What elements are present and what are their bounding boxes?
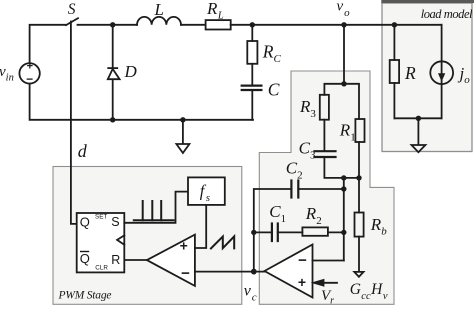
svg-text:+: + — [27, 61, 33, 73]
wire R1 bottom to node row — [358, 142, 360, 178]
inductor L — [137, 17, 181, 25]
capacitor C3 — [315, 150, 336, 152]
svg-text:−: − — [298, 252, 307, 269]
latch clock chevron mark — [117, 235, 124, 244]
svg-text:+: + — [298, 274, 306, 290]
junction: R1 bottom / Rb top node — [356, 175, 361, 180]
ground arrow below Rb — [354, 272, 363, 277]
ground symbol load model — [412, 145, 426, 152]
wire R2 to inverting node riser — [328, 231, 344, 233]
svg-text:R: R — [111, 253, 120, 267]
wire diode D anode down to return rail — [112, 79, 114, 120]
wire C2 to inverting node riser — [298, 188, 344, 190]
wire resistor R to load return — [393, 83, 395, 118]
junction: node vo sense tap — [341, 22, 346, 27]
wire C3 bottom to feedback node row — [324, 158, 359, 178]
wire node row down to resistor Rb — [358, 178, 360, 213]
svg-text:CLR: CLR — [95, 264, 108, 271]
svg-text:Q: Q — [80, 251, 90, 266]
junction: R3/R1 split node — [341, 81, 346, 86]
wire RL to node vo and into load model — [231, 24, 442, 26]
wire RC to capacitor C — [251, 64, 253, 85]
wire feedback riser to capacitor C1 — [254, 231, 272, 233]
svg-text:SET: SET — [95, 214, 107, 221]
svg-text:PWM Stage: PWM Stage — [58, 290, 112, 302]
svg-text:L: L — [154, 0, 164, 19]
junction: C2 at inverting riser — [341, 186, 346, 191]
jo arrow head — [438, 73, 445, 81]
compensator GccHv enclosure box — [259, 71, 394, 304]
wire from vin+ up and right to switch S left contact — [30, 25, 66, 63]
junction: ground tap on return rail — [180, 117, 185, 122]
wire fs down to comparator non-inverting input — [195, 205, 206, 248]
Vr reference arrow into op-amp non-inverting input — [322, 282, 337, 284]
clock pulse train symbol — [134, 201, 174, 220]
wire node vo down to R3/R1 split — [343, 25, 345, 84]
svg-text:D: D — [124, 62, 138, 81]
wire node vc: comparator inverting input to op-amp output — [195, 271, 265, 273]
wire d: switch control line down to latch Q output — [71, 22, 77, 224]
resistor R (load) — [390, 60, 399, 83]
capacitor C — [242, 84, 262, 86]
ground symbol on return rail — [182, 120, 184, 144]
wire load node down to resistor R — [393, 25, 395, 60]
clock generator fs box — [188, 177, 225, 205]
wire vin- down to bottom return rail — [30, 84, 253, 120]
capacitor C2 — [290, 181, 292, 198]
svg-text:+: + — [180, 238, 188, 254]
junction: R2 at inverting riser — [341, 230, 346, 235]
wire diode D cathode up to switch node — [112, 25, 114, 68]
wire op-amp inverting input to node riser — [313, 260, 344, 262]
dark top border of load model box — [381, 0, 474, 3]
sawtooth ramp symbol — [211, 236, 234, 248]
junction: diode anode at return rail — [110, 117, 115, 122]
wire C1 to resistor R2 — [278, 231, 303, 233]
capacitor C1 — [271, 224, 273, 242]
resistor R1 — [355, 119, 364, 142]
wire Rb down to reference arrow — [358, 237, 360, 272]
svg-text:−: − — [26, 72, 33, 86]
wire inductor L to resistor RL — [181, 24, 206, 26]
current source jo — [430, 61, 453, 84]
junction: switch node at diode cathode — [110, 22, 115, 27]
wire comparator output to latch R input — [124, 259, 147, 261]
svg-text:S: S — [68, 1, 76, 18]
wire load return to ground — [417, 118, 419, 145]
junction: node vc at feedback riser — [251, 269, 257, 275]
svg-text:C: C — [268, 80, 280, 100]
junction: vo rail at RC branch — [250, 22, 255, 27]
svg-text:−: − — [181, 265, 190, 282]
resistor R2 — [302, 227, 328, 235]
switch S lever — [66, 18, 78, 25]
junction: C3 bottom node at riser — [341, 175, 346, 180]
wire capacitor C to return rail — [251, 91, 253, 120]
svg-text:Q: Q — [80, 215, 90, 230]
comparator U2 PWM modulator — [147, 235, 195, 286]
svg-text:d: d — [78, 141, 88, 161]
wire inverting input node riser — [343, 178, 345, 261]
resistor R3 — [320, 95, 329, 120]
wire node vo down to resistor RC — [251, 25, 253, 41]
voltage source vin — [19, 63, 39, 83]
wire split node to R3 top and R1 top — [324, 84, 359, 119]
wire latch S input to clock fs — [124, 192, 188, 223]
junction: load return ground tap — [416, 116, 421, 121]
diode D — [108, 67, 117, 69]
resistor RC — [247, 41, 257, 64]
wire switch right contact to inductor L — [78, 24, 138, 26]
resistor RL — [206, 20, 231, 29]
wire R3 to capacitor C3 — [323, 120, 325, 151]
PWM Stage enclosure box — [53, 167, 242, 305]
op-amp U1 error amplifier — [265, 245, 313, 298]
load model enclosure box — [382, 3, 472, 152]
resistor Rb — [355, 213, 364, 237]
wire vo into load model down through current source jo — [441, 25, 443, 119]
svg-text:load model: load model — [421, 7, 473, 21]
SR latch U3 — [77, 213, 125, 272]
svg-text:R: R — [404, 63, 416, 83]
wire op-amp output feedback riser to C2 — [254, 189, 292, 272]
svg-text:S: S — [111, 215, 119, 229]
junction: C1 at feedback riser — [251, 230, 256, 235]
wire load return rail — [394, 117, 441, 119]
junction: load R top — [392, 22, 397, 27]
